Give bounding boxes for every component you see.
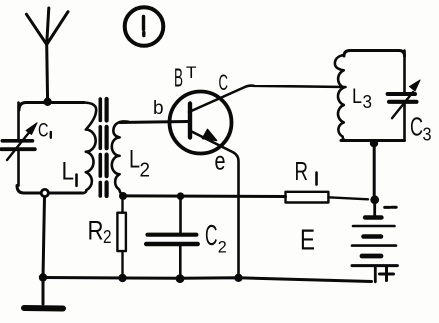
svg-text:b: b xyxy=(153,98,164,119)
node battery top junction xyxy=(370,195,379,204)
node L2 bottom junction xyxy=(119,192,127,200)
inductor L2 xyxy=(112,121,129,195)
capacitor C3 xyxy=(388,51,420,141)
capacitor C2 xyxy=(146,199,197,278)
label b xyxy=(153,98,164,119)
svg-text:E: E xyxy=(300,225,315,257)
svg-text:L: L xyxy=(62,158,75,186)
wire L3 bottom rail xyxy=(341,139,405,142)
inductor L1 xyxy=(81,103,96,194)
node ground junction xyxy=(39,273,47,281)
node antenna junction xyxy=(43,98,51,106)
svg-text:R: R xyxy=(295,156,309,186)
wire L3 top rail xyxy=(344,51,405,57)
node R2 bottom junction xyxy=(118,274,126,282)
svg-text:L: L xyxy=(352,85,362,108)
label L3 xyxy=(352,85,372,112)
svg-text:B: B xyxy=(174,63,183,93)
svg-text:C: C xyxy=(38,121,49,142)
transistor BT base bar xyxy=(188,104,192,138)
svg-text:3: 3 xyxy=(423,124,432,144)
resistor R2 xyxy=(117,200,126,278)
wire base xyxy=(120,122,188,123)
node L3 bottom tap xyxy=(370,139,378,147)
wire bottom rail xyxy=(43,278,372,282)
node emitter bottom junction xyxy=(234,274,242,282)
ground xyxy=(24,278,63,309)
transistor BT emitter arrow xyxy=(203,130,217,141)
label E xyxy=(300,225,315,257)
label C1 xyxy=(38,121,49,142)
label R2 xyxy=(88,215,112,247)
resistor R1 xyxy=(286,192,369,203)
svg-text:2: 2 xyxy=(218,238,227,257)
label BT xyxy=(174,63,197,93)
label C2 xyxy=(205,220,227,257)
node C2 bottom junction xyxy=(176,274,185,283)
transistor BT circle xyxy=(170,92,232,154)
svg-text:C: C xyxy=(410,112,423,142)
wire tank top rail xyxy=(19,103,84,111)
label minus xyxy=(385,206,397,209)
antenna xyxy=(26,8,68,101)
label e xyxy=(215,145,226,175)
capacitor C1 xyxy=(1,103,37,186)
battery E xyxy=(352,203,397,282)
node tank bottom tap xyxy=(41,189,48,196)
svg-text:3: 3 xyxy=(363,92,373,112)
svg-text:C: C xyxy=(219,70,229,95)
svg-text:e: e xyxy=(215,145,226,175)
wire tank to bottom rail xyxy=(43,197,45,278)
wire collector xyxy=(189,86,346,112)
wire tank bottom rail xyxy=(17,186,82,194)
svg-text:T: T xyxy=(186,63,197,82)
label C3 xyxy=(410,112,432,145)
svg-text:2: 2 xyxy=(140,160,151,182)
inductor L3 xyxy=(335,55,346,141)
node C2 top junction xyxy=(177,192,185,200)
figure number 1 xyxy=(125,7,164,46)
svg-text:C: C xyxy=(205,220,218,252)
label L2 xyxy=(129,145,150,181)
transformer core xyxy=(100,99,106,196)
wire mid rail left xyxy=(123,194,286,198)
label plus xyxy=(380,268,394,281)
label c xyxy=(219,70,229,95)
svg-text:R: R xyxy=(88,215,104,245)
label L1 xyxy=(62,158,75,186)
wire L3 tank to battery xyxy=(373,146,376,196)
wire emitter xyxy=(191,131,239,278)
svg-text:2: 2 xyxy=(103,227,112,247)
svg-text:L: L xyxy=(129,145,140,173)
label R1 xyxy=(295,156,309,186)
